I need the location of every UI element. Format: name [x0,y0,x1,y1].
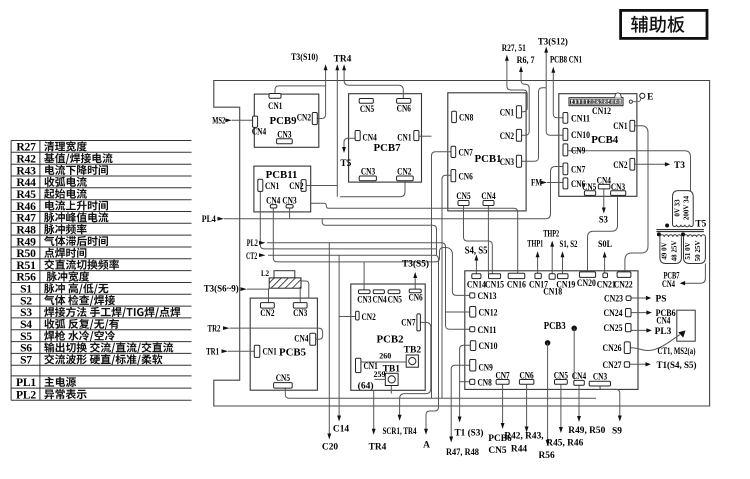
svg-text:CN3: CN3 [593,372,608,382]
svg-text:T5: T5 [340,159,351,169]
svg-text:CN4: CN4 [252,126,267,136]
svg-text:T1(S4, S5): T1(S4, S5) [657,360,697,371]
svg-text:PCB2: PCB2 [377,333,404,345]
svg-text:CN16: CN16 [507,280,526,290]
svg-text:SCR1, TR4: SCR1, TR4 [383,427,417,437]
svg-text:CN19: CN19 [556,280,575,290]
svg-text:S1, S2: S1, S2 [560,239,578,249]
svg-text:CN14: CN14 [467,280,486,290]
svg-text:1: 1 [619,100,621,105]
svg-text:CN6: CN6 [459,172,474,182]
svg-text:L2: L2 [261,268,269,278]
svg-text:0V 33: 0V 33 [674,199,682,217]
svg-text:50 25V: 50 25V [694,241,702,262]
svg-text:CN3: CN3 [277,130,292,140]
svg-text:R49, R50: R49, R50 [568,426,605,436]
svg-text:CN5: CN5 [388,295,403,305]
svg-text:CN5: CN5 [554,370,569,380]
svg-text:CN12: CN12 [592,106,611,116]
svg-text:CN3: CN3 [282,196,297,206]
svg-text:CN6: CN6 [397,104,412,114]
svg-text:CN1: CN1 [500,108,515,118]
svg-text:R6, 7: R6, 7 [517,56,535,66]
svg-text:CN9: CN9 [571,146,586,156]
svg-text:CN7: CN7 [401,318,416,328]
svg-text:TR4: TR4 [334,55,352,65]
svg-text:T1 (S3): T1 (S3) [455,427,484,438]
svg-text:CN13: CN13 [478,291,497,301]
svg-text:CN1: CN1 [263,347,278,357]
svg-text:CN12: CN12 [479,308,498,318]
svg-text:C14: C14 [333,425,349,435]
svg-text:CN3: CN3 [611,182,626,192]
svg-text:S7: S7 [20,354,32,367]
svg-text:CN2: CN2 [260,308,275,318]
svg-text:49 0V: 49 0V [660,242,668,259]
svg-text:CN1: CN1 [265,181,280,191]
svg-text:PCB1: PCB1 [475,153,502,165]
svg-text:CN9: CN9 [479,363,494,373]
svg-text:R45, R46: R45, R46 [546,439,583,449]
svg-text:CN3: CN3 [293,308,308,318]
svg-text:THP1: THP1 [527,239,543,249]
svg-text:CN10: CN10 [479,341,498,351]
svg-text:CN26: CN26 [603,343,622,353]
svg-text:CN5: CN5 [488,446,507,456]
svg-text:CN4: CN4 [294,334,309,344]
svg-text:PCB8 CN1: PCB8 CN1 [550,56,582,66]
svg-text:PS: PS [656,295,667,305]
svg-text:CN4: CN4 [363,133,378,143]
svg-text:CN1: CN1 [397,133,412,143]
svg-text:CN7: CN7 [459,147,474,157]
svg-text:PCB7: PCB7 [374,142,402,154]
svg-text:CT2: CT2 [246,251,258,261]
svg-text:TR2: TR2 [208,323,221,333]
svg-text:FM: FM [531,178,542,188]
svg-text:CN7: CN7 [571,165,586,175]
svg-text:PL2: PL2 [247,238,258,248]
svg-text:R42, R43,: R42, R43, [504,432,543,442]
svg-text:CN4: CN4 [481,191,496,201]
svg-text:CN5: CN5 [276,373,291,383]
svg-text:CN23: CN23 [604,294,623,304]
svg-text:CN2: CN2 [289,181,304,191]
svg-text:PCB5: PCB5 [279,347,306,359]
svg-text:CT1, MS2(a): CT1, MS2(a) [658,346,696,356]
svg-text:CN3: CN3 [361,166,376,176]
svg-text:R47, R48: R47, R48 [446,448,479,458]
svg-text:S3: S3 [599,214,608,224]
svg-text:R27, 51: R27, 51 [502,44,526,54]
svg-text:259: 259 [374,370,386,379]
svg-text:260: 260 [379,351,391,360]
svg-text:CN8: CN8 [459,113,474,123]
svg-text:200V 34: 200V 34 [683,195,691,220]
svg-text:CN25: CN25 [604,323,623,333]
svg-text:PL3: PL3 [655,327,672,337]
svg-text:CN4: CN4 [662,280,675,290]
svg-text:CN7: CN7 [495,370,510,380]
svg-text:S0L: S0L [598,239,612,249]
svg-text:CN4: CN4 [372,295,387,305]
svg-text:CN27: CN27 [603,360,622,370]
svg-text:S9: S9 [612,427,622,437]
svg-text:PCB9: PCB9 [270,115,298,127]
svg-text:CN2: CN2 [297,112,312,122]
svg-text:48 25V: 48 25V [671,241,679,262]
svg-text:CN24: CN24 [604,308,623,318]
svg-text:CN5: CN5 [456,191,471,201]
svg-text:T3(S10): T3(S10) [291,52,318,63]
svg-text:CN11: CN11 [478,325,497,335]
svg-text:CN2: CN2 [500,131,515,141]
svg-text:T3: T3 [674,161,685,171]
svg-text:PCB11: PCB11 [266,169,298,181]
svg-text:CN6: CN6 [408,293,423,303]
svg-text:R56: R56 [539,451,555,461]
svg-text:T3(S12): T3(S12) [538,36,568,47]
svg-text:CN2: CN2 [613,160,628,170]
svg-text:CN8: CN8 [478,377,493,387]
svg-text:TR1: TR1 [206,347,219,357]
svg-text:CN2: CN2 [397,166,412,176]
svg-text:PL2: PL2 [16,388,36,401]
svg-text:51 0V: 51 0V [684,242,692,259]
svg-text:T3(S5): T3(S5) [402,258,429,269]
svg-text:MS2: MS2 [212,116,225,126]
svg-text:CN4: CN4 [597,176,612,186]
svg-text:CN15: CN15 [485,280,504,290]
svg-text:(64): (64) [358,381,374,392]
svg-text:CN4: CN4 [656,316,670,326]
svg-text:TB2: TB2 [404,346,422,356]
svg-text:CN1: CN1 [613,121,628,131]
svg-text:THP2: THP2 [543,228,559,238]
svg-text:CN3: CN3 [500,157,515,167]
svg-text:CN4: CN4 [266,196,281,206]
svg-text:CN1: CN1 [268,101,283,111]
svg-text:C20: C20 [322,443,338,453]
svg-text:CN10: CN10 [571,130,590,140]
svg-text:PCB4: PCB4 [591,134,619,146]
svg-text:E: E [647,92,653,102]
svg-text:R44: R44 [511,445,527,455]
svg-text:PL4: PL4 [202,214,216,224]
svg-text:T5: T5 [695,220,706,230]
svg-text:CN20: CN20 [577,278,596,288]
svg-text:CN6: CN6 [519,370,534,380]
svg-text:TR4: TR4 [369,443,387,453]
svg-text:PL1: PL1 [16,376,36,389]
svg-text:T3(S6~9): T3(S6~9) [204,283,239,293]
svg-text:CN5: CN5 [360,104,375,114]
svg-text:CN3: CN3 [357,295,372,305]
svg-text:CN2: CN2 [362,312,377,322]
svg-text:CN4: CN4 [572,371,587,381]
svg-text:PCB3: PCB3 [544,320,566,332]
svg-text:CN5: CN5 [582,182,597,192]
svg-text:CN11: CN11 [571,113,590,123]
svg-text:2: 2 [615,100,617,105]
svg-text:A: A [423,441,430,451]
svg-text:CN22: CN22 [614,280,633,290]
svg-text:S4, S5: S4, S5 [465,246,488,257]
